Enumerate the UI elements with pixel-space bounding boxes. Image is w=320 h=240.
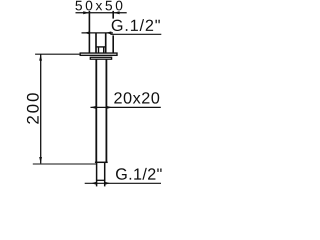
thread channel left line <box>95 33 97 54</box>
dimension 200 extension line bottom <box>33 163 96 165</box>
thread dim left arrow <box>84 31 90 34</box>
bottom dim left arrow <box>91 182 97 185</box>
label G.1/2 inch top <box>112 19 160 31</box>
bottom step flange <box>95 161 108 163</box>
body right edge / extension line lower segment <box>112 35 114 53</box>
bottom dimension line merged with G.1/2 underline <box>85 182 161 184</box>
dimension 200 top arrow <box>39 54 42 60</box>
bottom dim right arrow <box>105 182 111 185</box>
thread dim right arrow <box>106 31 112 34</box>
channel inner shoulder <box>96 46 106 48</box>
dimension 50x50 left arrow <box>83 11 89 14</box>
square tube right line <box>105 59 107 162</box>
ceiling plate bar <box>80 53 117 55</box>
dimension 20x20 right arrow <box>106 106 112 109</box>
body right edge / extension line upper segment <box>112 11 114 19</box>
label 20x20 <box>114 92 159 103</box>
dimension 200 bottom arrow <box>39 157 42 163</box>
outlet stub end cap <box>96 179 105 181</box>
dimension 20x20 left arrow <box>90 106 96 109</box>
dimension 200 extension line top <box>35 53 80 55</box>
square tube left line <box>95 59 97 162</box>
outlet stub left line <box>96 163 98 186</box>
inner bore left line <box>98 47 100 54</box>
inner bore right line <box>103 47 105 54</box>
dimension 50x50 right arrow <box>113 11 119 14</box>
dimension 200 label (rotated) <box>27 93 39 124</box>
dimension 20x20 dim line merged with underline <box>91 106 161 108</box>
G.1/2 top underline <box>110 33 161 35</box>
thread channel right line <box>105 33 107 54</box>
dimension 200 dim line <box>40 54 42 163</box>
dimension 50x50 label <box>75 1 122 11</box>
label G.1/2 inch bottom <box>116 168 162 180</box>
body left edge / extension line <box>88 11 90 56</box>
outlet stub right line <box>104 163 106 186</box>
thread dimension line merged with G.1/2 underline <box>82 32 113 34</box>
dimension 50x50 dim line <box>76 12 127 14</box>
lower cover bar <box>90 57 111 59</box>
